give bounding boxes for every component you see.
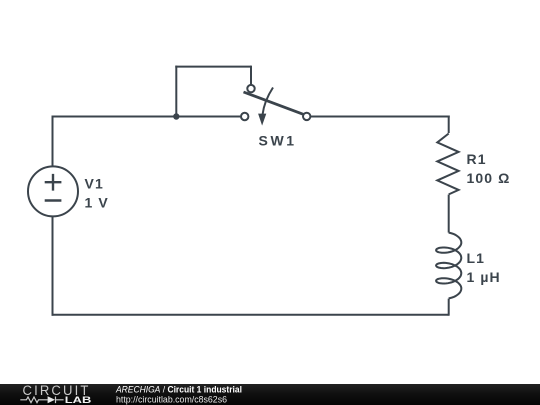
switch SW1 actuation arrow arc bbox=[263, 88, 274, 115]
wire left vertical (top corner down to V1 plus terminal) bbox=[52, 116, 54, 167]
svg-text:V1: V1 bbox=[85, 176, 104, 192]
svg-text:R1: R1 bbox=[467, 151, 487, 167]
wire top-left horizontal (V1 top to switch SW1 left terminal) bbox=[53, 116, 242, 118]
CircuitLab logo resistor zigzag and diode symbol bbox=[20, 397, 63, 404]
voltage source V1 plus sign bbox=[45, 174, 62, 191]
svg-text:LAB: LAB bbox=[65, 395, 92, 405]
svg-text:1 V: 1 V bbox=[85, 195, 109, 211]
wire right vertical upper (R1 up to top-right corner) bbox=[448, 116, 450, 134]
wire bypass vertical up from junction bbox=[175, 66, 177, 117]
switch SW1 blade (open, from upper throw toward right terminal) bbox=[244, 92, 304, 114]
CircuitLab logo diode triangle bbox=[48, 396, 55, 403]
wire bypass top horizontal bbox=[175, 66, 251, 68]
wire right vertical lower (bottom corner up to L1) bbox=[448, 299, 450, 316]
wire top-right horizontal (SW1 right terminal to top-right corner) bbox=[310, 116, 450, 118]
svg-text:SW1: SW1 bbox=[259, 133, 297, 149]
voltage source V1 minus sign bbox=[45, 199, 62, 201]
wire right vertical between L1 and R1 bbox=[448, 195, 450, 233]
wire bypass vertical down to SW1 upper throw terminal bbox=[250, 66, 252, 86]
svg-text:1 µH: 1 µH bbox=[467, 269, 501, 285]
switch SW1 actuation arrow head bbox=[258, 114, 266, 126]
wire bottom horizontal (V1 to L1) bbox=[52, 314, 449, 316]
voltage source V1 circle bbox=[28, 166, 78, 216]
node junction dot at bypass tap bbox=[173, 113, 179, 119]
switch SW1 upper throw terminal circle bbox=[247, 85, 254, 92]
switch SW1 right throw terminal circle bbox=[303, 113, 310, 120]
switch SW1 left pole terminal circle bbox=[241, 113, 248, 120]
svg-text:100 Ω: 100 Ω bbox=[467, 170, 511, 186]
resistor R1 zigzag bbox=[437, 134, 458, 195]
wire V1 minus terminal down to bottom-left corner bbox=[52, 216, 54, 315]
svg-text:http://circuitlab.com/c8s62s6: http://circuitlab.com/c8s62s6 bbox=[116, 394, 227, 404]
inductor L1 coil bbox=[436, 233, 461, 299]
svg-text:ARECHIGA / Circuit 1 industria: ARECHIGA / Circuit 1 industrial bbox=[115, 384, 242, 394]
svg-text:L1: L1 bbox=[467, 250, 486, 266]
